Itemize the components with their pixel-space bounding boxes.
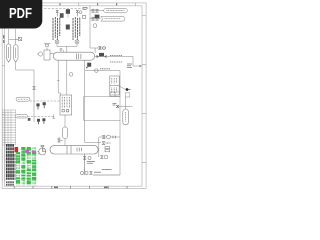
revision table text block (dark rotated text): [7, 144, 15, 180]
V-1 bottom-left sample wire: [57, 60, 61, 95]
wire V-1 bottom down-left: [66, 60, 68, 95]
PDF badge: [0, 0, 42, 29]
micro fittings above group 1: [56, 10, 58, 16]
battery-limit dashed line top-left: [44, 8, 89, 10]
wire from tie-in down to capsule: [118, 97, 132, 110]
V-2 drain symbols: [83, 154, 91, 175]
pump/pot cluster left of V-1: [37, 43, 54, 60]
blind flag 4: [42, 118, 45, 123]
blind flag 3: [37, 119, 40, 124]
vessel outlet wire right with control valve: [95, 55, 133, 57]
revision table lower text rows: [7, 181, 13, 186]
sample pot (small vertical cylinder): [63, 127, 68, 139]
svg-text:PDF: PDF: [9, 6, 32, 22]
instrument circle under flare valves: [93, 24, 97, 28]
control valve on right leg: [86, 63, 91, 69]
green notes text strokes: [17, 147, 36, 185]
magenta highlight dot 1: [25, 149, 29, 153]
blind flag 2: [43, 102, 46, 108]
valve below callout B: [28, 118, 31, 121]
off-page callout pill left A: [16, 97, 30, 101]
wire to right border with arrow: [133, 57, 140, 67]
risers to badge area: [9, 29, 16, 45]
dark actuator blob between groups: [66, 25, 70, 30]
notes text right margin: [127, 64, 132, 68]
dark valve blob left: [60, 13, 64, 18]
zone ticks top: [22, 3, 135, 6]
V-2 head flange marks: [105, 147, 110, 152]
tie-in flag right edge: [125, 93, 130, 97]
left margin micro text: [3, 35, 5, 43]
bowtie valve on left drain: [33, 87, 36, 90]
off-page callout pill left B: [16, 115, 28, 118]
sample label box text: [112, 78, 117, 93]
pump P-1 left of V-2: [38, 145, 46, 155]
battery limit wire from callout A: [30, 100, 60, 102]
wire to callout 1: [90, 10, 104, 12]
micro fittings above group 2: [76, 10, 85, 18]
horizontal vessel V-1 (top drum): [53, 52, 94, 60]
bottom vessel V-2: [50, 145, 98, 154]
V-2 internal text: [77, 148, 81, 152]
vertical line labels group 2: [73, 17, 80, 40]
main riser from top border: [90, 6, 106, 53]
row C valve: [100, 156, 103, 159]
magenta highlight dot 2: [32, 150, 35, 153]
valve cluster left of pot: [58, 137, 63, 142]
instrument circle below V-1: [69, 73, 73, 77]
row A instrument circle: [107, 135, 111, 139]
valve on capsule inlet: [116, 105, 119, 108]
vessel V-1 top nozzles: [60, 49, 64, 53]
tiny labels left of capsule: [113, 103, 117, 105]
control valve with dark actuator on line 2: [95, 15, 100, 19]
wire box to pot: [64, 115, 66, 127]
filter capsule (vertical pill): [123, 109, 129, 125]
sample point dot: [126, 88, 129, 91]
tiny valve pair top-left: [16, 37, 22, 40]
footer cluster label: [94, 171, 101, 173]
sheet outer border: [2, 3, 146, 189]
vessel V-1 internal text marks: [77, 54, 81, 60]
line label above branch: [100, 68, 110, 70]
red stamp block: [15, 147, 19, 152]
drain label text: [87, 162, 95, 164]
zone ticks left: [2, 66, 4, 115]
zone ticks right: [142, 16, 146, 163]
revision table grid: [2, 110, 15, 145]
line label on down leg: [102, 169, 112, 171]
left standpipe filter 2: [13, 45, 18, 63]
drain wire from filters: [16, 62, 34, 122]
wire to callout 2: [90, 18, 101, 20]
sheet inner border: [4, 6, 142, 186]
feed manifold wires: [57, 44, 77, 52]
sample label box mid-right: [110, 76, 119, 95]
leader to sample point dot: [119, 86, 125, 90]
control valve (dark actuator) on dashed line: [66, 9, 70, 17]
note mark right of green: [39, 152, 41, 154]
mid instrument cluster row 2: [102, 142, 111, 145]
branch wire to tie-in: [85, 71, 120, 92]
analyser enclosure box: [84, 97, 120, 121]
tie-in box mid-right: [110, 92, 120, 97]
off-page callout pill top 2 (chevron): [101, 16, 125, 21]
wire V-1 bottom right leg: [84, 60, 86, 142]
line labels right of CV: [110, 55, 122, 62]
table left columns lower: [2, 145, 5, 181]
control valve CV right (dark actuator): [97, 53, 107, 58]
vertical line labels group 1: [53, 17, 60, 40]
analyser return wire: [119, 120, 121, 175]
valves on line 2: [92, 17, 99, 20]
small symbols near riser mid: [99, 47, 106, 50]
instrument circle on branch: [95, 69, 99, 73]
sample box valves: [62, 110, 69, 112]
sample box internal text: [62, 97, 69, 108]
crossing ticks row A: [113, 136, 116, 139]
battery limit wire from callout B: [28, 115, 55, 117]
wire pot to bottom vessel: [64, 139, 66, 146]
blind flag 1: [36, 103, 39, 109]
left standpipe filter 1: [6, 44, 10, 62]
bottom footer cluster: [80, 169, 120, 175]
spec break circle 1: [55, 40, 59, 44]
arrowhead at border: [140, 65, 143, 67]
row C instrument circle: [104, 155, 108, 159]
spec break circle 2: [75, 40, 79, 44]
zone ticks bottom: [14, 186, 127, 188]
tiny line label left of riser: [83, 8, 88, 10]
tee into sample box: [52, 115, 55, 119]
off-page callout pill top 1: [104, 8, 128, 12]
row A valve: [102, 136, 105, 139]
zone numbers top (micro marks): [59, 4, 117, 6]
wire mid cluster to left leg: [85, 142, 101, 144]
sample system box: [60, 95, 72, 115]
green highlighted notes column: [16, 147, 37, 184]
V-2 outlet wire row A: [99, 137, 120, 157]
valves on flare header: [92, 9, 99, 12]
